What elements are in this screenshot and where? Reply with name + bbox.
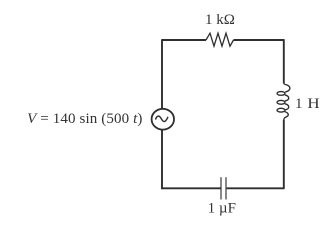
wire left lower segment	[161, 130, 163, 189]
svg-text:1 µF: 1 µF	[208, 200, 236, 216]
capacitor C1	[221, 177, 226, 199]
source sine symbol	[156, 116, 169, 121]
svg-text:1: 1	[295, 96, 303, 112]
wire bottom-right segment	[226, 187, 285, 189]
inductor L1	[277, 83, 290, 120]
wire top-right segment	[234, 39, 284, 41]
wire right upper segment	[283, 39, 285, 83]
svg-text:1 kΩ: 1 kΩ	[205, 12, 235, 28]
resistor R1	[206, 33, 234, 46]
wire bottom-left segment	[161, 187, 221, 189]
wire left upper segment	[161, 39, 163, 108]
svg-text:H: H	[307, 96, 320, 112]
source VS circle	[152, 109, 174, 130]
wire right lower segment	[283, 120, 285, 188]
svg-text:V = 140 sin (500 t): V = 140 sin (500 t)	[27, 111, 142, 127]
wire top-left segment	[162, 39, 206, 41]
